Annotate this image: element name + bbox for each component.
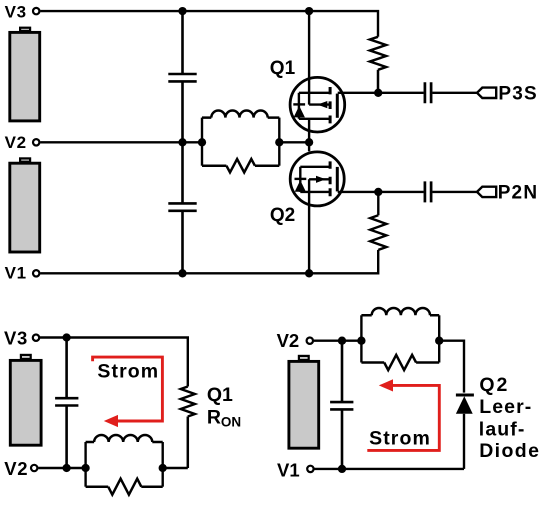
junction L2R4 right bbox=[159, 464, 167, 472]
resistor R5 bbox=[361, 355, 439, 370]
resistor R1 bbox=[202, 159, 279, 172]
mosfet Q1 gate bar bbox=[336, 94, 339, 118]
svg-text:P2N: P2N bbox=[498, 182, 539, 203]
battery B4 bbox=[289, 361, 319, 448]
mosfet Q2 body circle bbox=[290, 152, 344, 206]
mosfet Q2 body-diode branch bbox=[299, 167, 301, 192]
svg-text:Q2: Q2 bbox=[270, 205, 295, 226]
wire L2R4 to RON bbox=[163, 467, 188, 469]
mosfet Q2 top stub bbox=[300, 166, 330, 168]
inductor L1 bbox=[202, 111, 279, 118]
connector P3S bbox=[477, 88, 496, 98]
wire L2R4 left edge bbox=[84, 442, 86, 487]
svg-text:Strom: Strom bbox=[369, 427, 431, 449]
wire V3 rail (bottom left) bbox=[40, 338, 188, 387]
svg-text:Q2: Q2 bbox=[479, 374, 509, 396]
mosfet Q1 body stub bbox=[309, 103, 330, 105]
capacitor C5 bbox=[55, 338, 78, 469]
inductor L3 bbox=[361, 308, 439, 315]
wire Q2 gate bbox=[338, 191, 424, 193]
mosfet Q1 channel bars bbox=[329, 87, 332, 123]
mosfet Q2 body stub bbox=[309, 178, 330, 180]
wire C3 to P3S bbox=[432, 92, 477, 94]
wire L3R5 right edge bbox=[438, 315, 440, 362]
svg-text:Q1: Q1 bbox=[270, 58, 296, 79]
resistor Q1 RON bbox=[181, 387, 195, 469]
battery B1 bbox=[10, 32, 40, 121]
svg-text:lauf-: lauf- bbox=[479, 419, 526, 441]
mosfet Q1 body-diode cathode bar bbox=[293, 103, 305, 105]
current loop arrow (bottom left) bbox=[93, 357, 163, 421]
capacitor C3 bbox=[425, 82, 431, 103]
svg-text:Diode: Diode bbox=[479, 440, 540, 462]
diode D1 cathode bar bbox=[456, 394, 474, 397]
junction L2R4 left bbox=[81, 464, 89, 472]
terminal V3 bbox=[33, 8, 39, 14]
capacitor C1 bbox=[168, 11, 196, 142]
battery B3 bbox=[10, 360, 41, 445]
svg-text:ON: ON bbox=[221, 415, 241, 430]
mosfet Q1 top stub bbox=[299, 92, 330, 94]
current loop arrow (bottom right) bbox=[367, 385, 439, 450]
terminal V3 (bottom left) bbox=[33, 335, 39, 341]
resistor R4 bbox=[86, 479, 163, 495]
terminal V1 (bottom right) bbox=[307, 466, 313, 472]
inductor L2 bbox=[86, 435, 163, 442]
capacitor C6 bbox=[330, 341, 353, 469]
junction V1 rail / C2 bbox=[178, 269, 186, 277]
junction L3R5 right bbox=[435, 337, 443, 345]
mosfet Q1 body-diode branch bbox=[298, 93, 300, 119]
wire V1 rail bbox=[40, 250, 378, 273]
wire V3 rail bbox=[40, 11, 378, 37]
diode D1 triangle bbox=[456, 396, 473, 414]
junction L1R1 right bbox=[275, 138, 283, 146]
junction switch node bbox=[305, 138, 313, 146]
terminal V2 (bottom right) bbox=[307, 338, 313, 344]
svg-text:Q1: Q1 bbox=[207, 384, 233, 406]
svg-text:V2: V2 bbox=[277, 330, 300, 351]
wire V2 rail (bottom right) bbox=[314, 340, 362, 342]
mosfet Q2 body-diode cathode bar bbox=[295, 178, 307, 180]
resistor R3 gate pull-down bbox=[370, 192, 386, 250]
wire C4 to P2N bbox=[432, 191, 477, 193]
svg-text:V1: V1 bbox=[5, 264, 27, 283]
mosfet Q2 source lead bbox=[308, 179, 310, 273]
mosfet Q1 source lead bbox=[308, 11, 310, 105]
wire V2 rail (bottom left) bbox=[38, 467, 85, 469]
wire L3R5 to D1 bbox=[439, 341, 464, 393]
wire L3R5 left edge bbox=[360, 315, 362, 362]
mosfet Q1 drain lead bbox=[308, 119, 310, 143]
svg-text:Leer-: Leer- bbox=[479, 396, 532, 418]
wire V2 rail left bbox=[40, 141, 202, 143]
junction V3 rail / C1 bbox=[178, 7, 186, 15]
diode D1 anode lead bbox=[463, 414, 465, 469]
mosfet Q1 bottom stub bbox=[299, 118, 330, 120]
mosfet Q2 body arrow bbox=[316, 176, 326, 183]
junction Q2 gate / R3 bbox=[374, 188, 382, 196]
junction V3 / C5 bbox=[62, 333, 70, 341]
wire Q1 gate bbox=[338, 92, 424, 94]
junction V1 / C6 bbox=[338, 465, 346, 473]
wire L2R4 right edge bbox=[161, 442, 163, 487]
svg-text:Strom: Strom bbox=[97, 360, 159, 382]
svg-text:P3S: P3S bbox=[498, 83, 538, 104]
mosfet Q2 body-diode triangle bbox=[295, 180, 306, 192]
mosfet Q1 body arrow bbox=[317, 101, 327, 108]
junction V2 / C5 bbox=[62, 464, 70, 472]
junction V3 rail / Q1 bbox=[305, 7, 313, 15]
svg-text:V1: V1 bbox=[277, 460, 300, 481]
mosfet Q2 bottom stub bbox=[300, 191, 330, 193]
wire L1R1 to switch node bbox=[279, 141, 309, 143]
terminal V2 (bottom left) bbox=[31, 465, 37, 471]
terminal V1 bbox=[33, 270, 39, 276]
terminal V2 bbox=[33, 139, 39, 145]
junction Q1 gate / R2 bbox=[374, 89, 382, 97]
wire V1 rail (bottom right) bbox=[314, 468, 464, 470]
resistor R2 gate pull-up bbox=[370, 37, 386, 93]
mosfet Q2 gate bar bbox=[336, 167, 339, 192]
junction V1 rail / Q2 bbox=[305, 269, 313, 277]
mosfet Q2 drain lead bbox=[308, 142, 310, 151]
junction V2 / L1R1 left bbox=[198, 138, 206, 146]
battery B2 bbox=[10, 163, 40, 252]
junction L3R5 left bbox=[357, 337, 365, 345]
wire L1R1 left edge bbox=[201, 118, 203, 166]
svg-text:V3: V3 bbox=[5, 3, 27, 22]
wire L1R1 right edge bbox=[278, 118, 280, 166]
svg-text:V3: V3 bbox=[4, 327, 28, 348]
svg-text:R: R bbox=[207, 406, 221, 428]
svg-text:V2: V2 bbox=[5, 133, 27, 152]
mosfet Q1 body circle bbox=[290, 77, 345, 132]
connector P2N bbox=[477, 187, 496, 197]
junction V2 rail / C1 bbox=[178, 138, 186, 146]
svg-text:V2: V2 bbox=[4, 458, 28, 479]
mosfet Q2 channel bars bbox=[329, 161, 332, 196]
mosfet Q1 body-diode triangle bbox=[294, 106, 305, 118]
junction V2 / C6 bbox=[338, 337, 346, 345]
capacitor C4 bbox=[425, 181, 431, 202]
capacitor C2 bbox=[168, 142, 196, 273]
